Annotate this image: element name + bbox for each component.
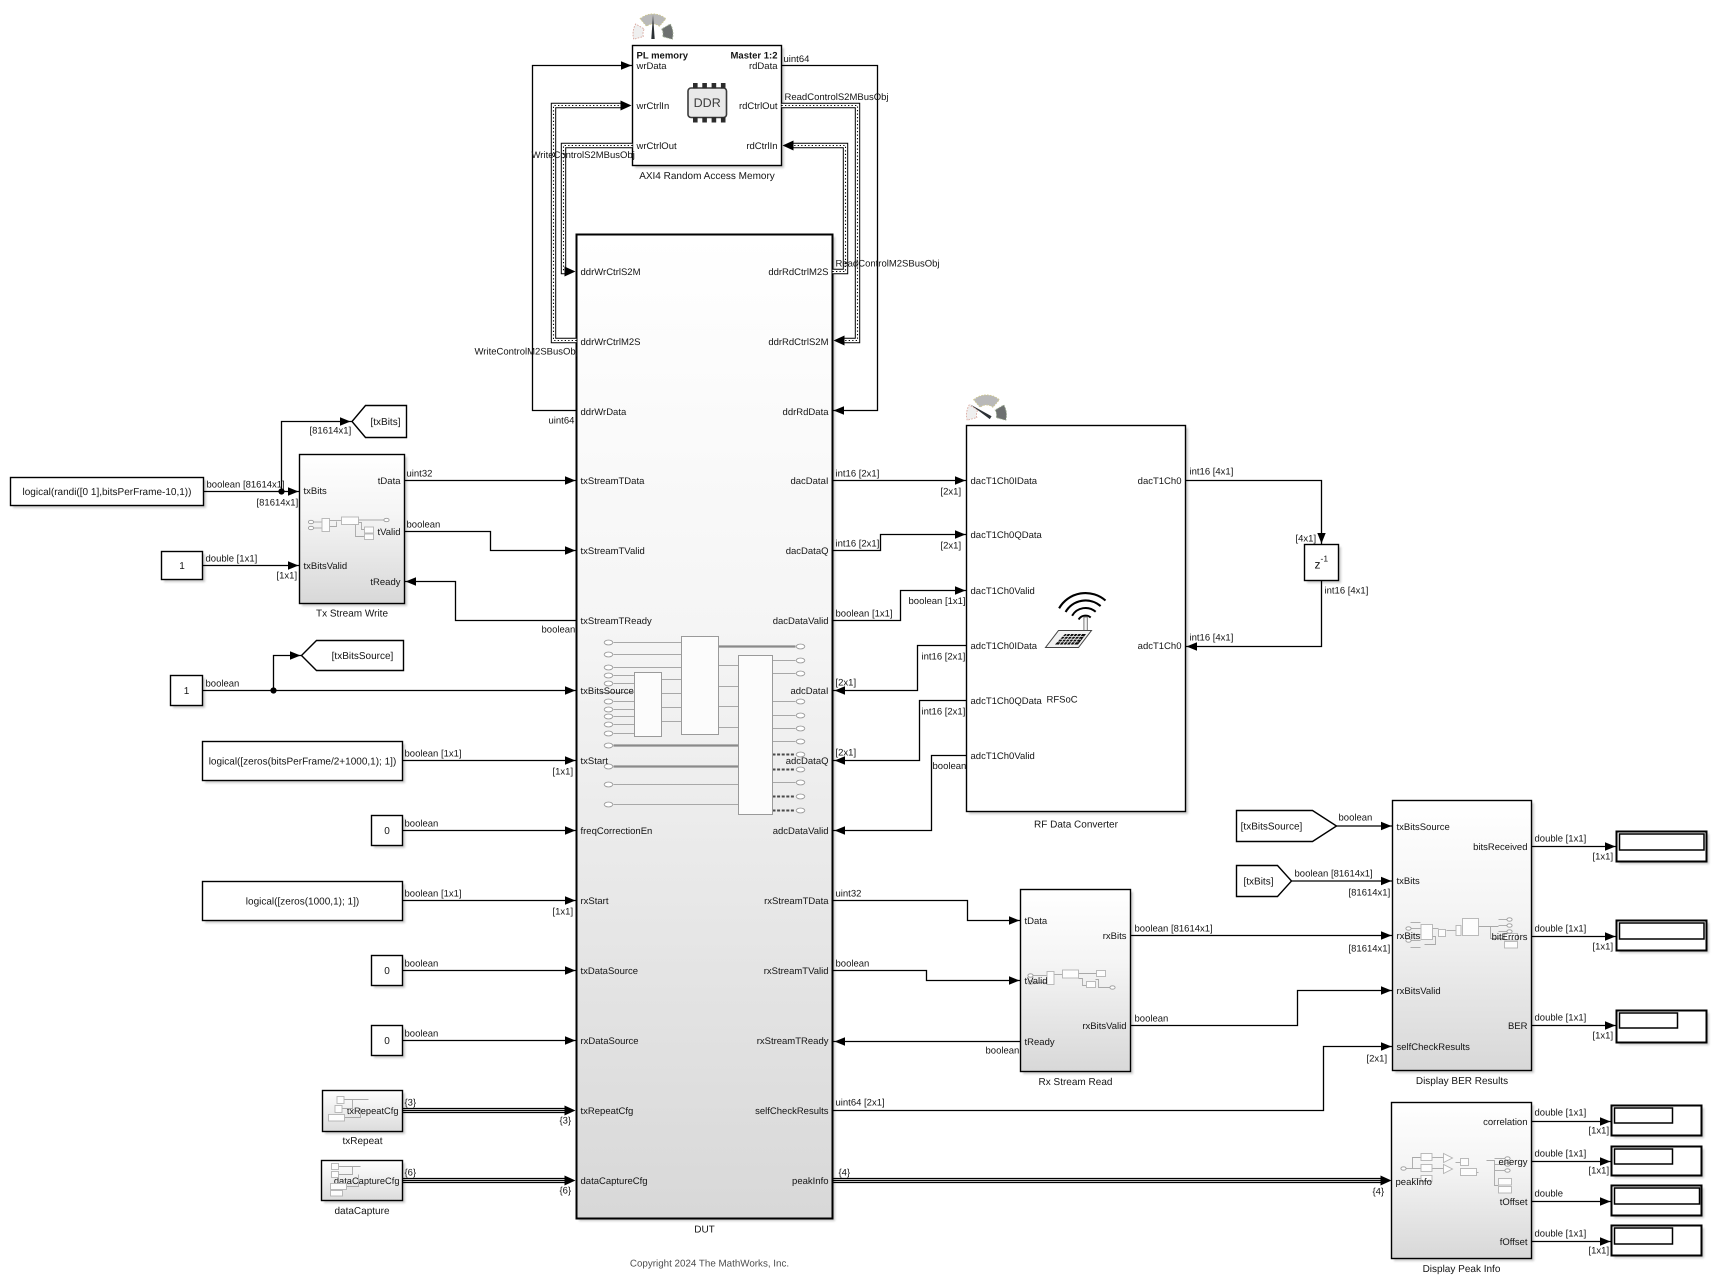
svg-text:txRepeatCfg: txRepeatCfg — [347, 1106, 399, 1116]
wire const0 -> freqCorrectionEn — [403, 830, 577, 832]
svg-text:dacT1Ch0Valid: dacT1Ch0Valid — [971, 586, 1035, 597]
svg-text:correlation: correlation — [1483, 1117, 1527, 1128]
svg-text:[1x1]: [1x1] — [1593, 852, 1614, 863]
svg-text:tReady: tReady — [1025, 1037, 1055, 1048]
Display Peak preview sketch — [1401, 1154, 1512, 1194]
wire tValid -> txStreamTValid — [405, 532, 577, 551]
svg-text:0: 0 — [384, 966, 390, 977]
block dataCapture — [322, 1161, 406, 1204]
wire peakInfo -> Display Peak Info (bus {4}) — [833, 1178, 1383, 1180]
svg-text:int16 [4x1]: int16 [4x1] — [1190, 633, 1234, 644]
svg-text:uint64 [2x1]: uint64 [2x1] — [836, 1098, 885, 1109]
svg-text:rxStreamTValid: rxStreamTValid — [764, 966, 829, 977]
svg-text:ddrWrCtrlM2S: ddrWrCtrlM2S — [581, 337, 641, 348]
svg-text:energy: energy — [1498, 1157, 1527, 1168]
svg-text:1: 1 — [184, 686, 190, 697]
wire rdData -> ddrRdData — [782, 66, 878, 411]
svg-text:txBitsValid: txBitsValid — [304, 561, 348, 572]
svg-text:BER: BER — [1508, 1021, 1528, 1032]
svg-text:rxStart: rxStart — [581, 896, 609, 907]
svg-text:boolean: boolean — [405, 959, 439, 970]
wire from [txBits] -> Display BER — [1292, 880, 1393, 882]
wire fOffset -> display — [1532, 1241, 1612, 1243]
gauge icon above AXI4 RAM — [633, 14, 673, 39]
svg-text:WriteControlS2MBusObj: WriteControlS2MBusObj — [532, 150, 635, 161]
wire const1 -> txBitsValid — [203, 565, 300, 567]
svg-text:boolean: boolean — [1339, 813, 1373, 824]
wire dacDataI -> dacT1Ch0IData — [833, 480, 967, 482]
wire adcT1Ch0Valid -> adcDataValid — [834, 756, 967, 831]
svg-text:[txBitsSource]: [txBitsSource] — [332, 651, 394, 662]
svg-text:dacT1Ch0QData: dacT1Ch0QData — [971, 530, 1043, 541]
svg-text:tData: tData — [378, 476, 401, 487]
svg-text:[1x1]: [1x1] — [553, 767, 574, 778]
wire dataCapture -> dataCaptureCfg (bus {6}) — [403, 1178, 567, 1180]
svg-text:boolean [81614x1]: boolean [81614x1] — [207, 480, 285, 491]
svg-text:boolean: boolean — [405, 1029, 439, 1040]
svg-text:double [1x1]: double [1x1] — [1535, 1013, 1587, 1024]
svg-text:double [1x1]: double [1x1] — [1535, 924, 1587, 935]
svg-text:boolean: boolean — [836, 959, 870, 970]
svg-text:{4}: {4} — [1373, 1187, 1385, 1198]
wire ddrWrData -> wrData — [533, 66, 633, 411]
goto tag [txBits] — [352, 406, 407, 438]
svg-text:[1x1]: [1x1] — [553, 907, 574, 918]
svg-text:rxBits: rxBits — [1103, 931, 1127, 942]
svg-text:adcDataI: adcDataI — [790, 686, 828, 697]
svg-text:[81614x1]: [81614x1] — [1349, 888, 1391, 899]
block txRepeat — [323, 1091, 406, 1135]
svg-text:RF Data Converter: RF Data Converter — [1034, 820, 1119, 831]
svg-text:int16 [2x1]: int16 [2x1] — [836, 539, 880, 550]
wire const0 -> rxDataSource — [403, 1040, 577, 1042]
svg-text:rxBits: rxBits — [1397, 931, 1421, 942]
svg-text:int16 [4x1]: int16 [4x1] — [1190, 467, 1234, 478]
svg-text:0: 0 — [384, 1036, 390, 1047]
junction txBitsSource branch — [270, 687, 276, 693]
svg-text:[1x1]: [1x1] — [1589, 1166, 1610, 1177]
wire dacT1Ch0 -> delay — [1186, 481, 1322, 545]
wire selfCheckResults -> Display BER — [833, 1047, 1393, 1111]
svg-text:int16 [2x1]: int16 [2x1] — [922, 707, 966, 718]
svg-text:rdData: rdData — [749, 61, 778, 72]
svg-text:DDR: DDR — [694, 96, 721, 110]
Tx Stream Write preview sketch — [308, 517, 389, 540]
svg-text:selfCheckResults: selfCheckResults — [1397, 1042, 1471, 1053]
svg-text:adcT1Ch0Valid: adcT1Ch0Valid — [971, 751, 1035, 762]
svg-text:0: 0 — [384, 826, 390, 837]
block Rx Stream Read — [1021, 890, 1134, 1075]
svg-text:{4}: {4} — [839, 1168, 851, 1179]
svg-text:Rx Stream Read: Rx Stream Read — [1039, 1077, 1113, 1088]
svg-text:rxStreamTData: rxStreamTData — [764, 896, 829, 907]
wire tData -> txStreamTData — [405, 480, 577, 482]
svg-text:selfCheckResults: selfCheckResults — [755, 1106, 829, 1117]
svg-text:freqCorrectionEn: freqCorrectionEn — [581, 826, 653, 837]
svg-text:adcT1Ch0QData: adcT1Ch0QData — [971, 696, 1043, 707]
svg-text:ddrRdCtrlM2S: ddrRdCtrlM2S — [768, 267, 828, 278]
wire BER -> display — [1532, 1025, 1617, 1027]
svg-text:PL memory: PL memory — [637, 51, 689, 62]
svg-text:ddrRdCtrlS2M: ddrRdCtrlS2M — [768, 337, 828, 348]
svg-text:rxDataSource: rxDataSource — [581, 1036, 639, 1047]
svg-text:ddrWrData: ddrWrData — [581, 407, 627, 418]
RFSoC antenna icon — [1046, 593, 1106, 647]
block Display BER Results — [1393, 801, 1535, 1074]
svg-text:boolean: boolean — [933, 761, 967, 772]
svg-text:AXI4 Random Access Memory: AXI4 Random Access Memory — [639, 171, 775, 182]
display bitErrors — [1617, 921, 1710, 954]
svg-text:Display Peak Info: Display Peak Info — [1423, 1264, 1501, 1275]
svg-text:double [1x1]: double [1x1] — [1535, 834, 1587, 845]
svg-text:[2x1]: [2x1] — [941, 541, 962, 552]
wire rxBits -> Display BER rxBits — [1131, 935, 1393, 937]
svg-text:int16 [4x1]: int16 [4x1] — [1325, 586, 1369, 597]
svg-text:ddrRdData: ddrRdData — [783, 407, 830, 418]
svg-text:DUT: DUT — [694, 1225, 715, 1236]
wire dacDataValid -> dacT1Ch0Valid — [833, 591, 967, 621]
goto tag [txBitsSource] — [302, 641, 404, 671]
wire adcT1Ch0QData -> adcDataQ — [834, 701, 967, 761]
svg-text:[2x1]: [2x1] — [836, 678, 857, 689]
svg-text:boolean [1x1]: boolean [1x1] — [909, 596, 966, 607]
wire ddrRdCtrlM2S -> rdCtrlIn (control bus) — [792, 146, 846, 272]
svg-text:Display BER Results: Display BER Results — [1416, 1076, 1508, 1087]
wire correlation -> display — [1532, 1121, 1612, 1123]
svg-text:RFSoC: RFSoC — [1047, 695, 1078, 706]
block expression logical([zeros(bitsPerFrame/2+1000,1); 1]) — [203, 742, 406, 784]
Display BER preview sketch — [1406, 918, 1518, 948]
svg-text:boolean: boolean — [407, 520, 441, 531]
wire tReady -> rxStreamTReady — [834, 1041, 1021, 1043]
svg-text:int16 [2x1]: int16 [2x1] — [836, 469, 880, 480]
svg-text:double [1x1]: double [1x1] — [1535, 1149, 1587, 1160]
wire rdCtrlOut -> ddrRdCtrlS2M (control bus) — [782, 106, 858, 341]
svg-text:adcDataQ: adcDataQ — [786, 756, 829, 767]
svg-text:tReady: tReady — [370, 577, 400, 588]
svg-text:tOffset: tOffset — [1500, 1197, 1528, 1208]
wire tOffset -> display — [1532, 1201, 1612, 1203]
wire txStreamTReady -> tReady — [405, 582, 577, 621]
svg-text:Copyright 2024 The MathWorks,: Copyright 2024 The MathWorks, Inc. — [630, 1259, 789, 1270]
svg-text:[txBits]: [txBits] — [1243, 877, 1273, 888]
DUT subsystem preview sketch — [601, 637, 805, 815]
svg-text:rxBitsValid: rxBitsValid — [1397, 986, 1441, 997]
svg-text:boolean: boolean — [542, 625, 576, 636]
svg-text:tValid: tValid — [1025, 976, 1048, 987]
svg-text:dacDataI: dacDataI — [790, 476, 828, 487]
svg-text:txRepeat: txRepeat — [342, 1136, 382, 1147]
svg-text:{6}: {6} — [560, 1186, 572, 1197]
svg-text:uint64: uint64 — [549, 416, 575, 427]
wire adcT1Ch0IData -> adcDataI — [834, 646, 967, 691]
svg-text:rxStreamTReady: rxStreamTReady — [757, 1036, 829, 1047]
svg-text:double: double — [1535, 1189, 1564, 1200]
svg-text:dacT1Ch0: dacT1Ch0 — [1138, 476, 1182, 487]
block AXI4 Random Access Memory — [633, 46, 785, 169]
block Delay z^-1 — [1305, 545, 1342, 584]
wire zeros1 -> txStart — [403, 760, 577, 762]
svg-text:bitsReceived: bitsReceived — [1473, 842, 1527, 853]
Rx Stream Read port labels — [1025, 916, 1127, 1048]
svg-text:[81614x1]: [81614x1] — [310, 426, 352, 437]
svg-text:logical([zeros(1000,1); 1]): logical([zeros(1000,1); 1]) — [246, 897, 359, 908]
svg-text:bitErrors: bitErrors — [1492, 932, 1528, 943]
svg-text:wrCtrlIn: wrCtrlIn — [636, 101, 670, 112]
svg-text:txRepeatCfg: txRepeatCfg — [581, 1106, 634, 1117]
svg-text:{3}: {3} — [405, 1098, 417, 1109]
svg-text:double [1x1]: double [1x1] — [206, 554, 258, 565]
svg-text:uint64: uint64 — [784, 54, 810, 65]
block DUT — [577, 235, 836, 1222]
svg-text:adcT1Ch0IData: adcT1Ch0IData — [971, 641, 1038, 652]
from tag [txBitsSource] — [1237, 811, 1337, 842]
svg-text:double [1x1]: double [1x1] — [1535, 1108, 1587, 1119]
svg-text:dataCapture: dataCapture — [334, 1206, 389, 1217]
svg-text:boolean: boolean — [986, 1046, 1020, 1057]
svg-text:rdCtrlIn: rdCtrlIn — [746, 141, 777, 152]
svg-text:txStreamTData: txStreamTData — [581, 476, 646, 487]
svg-text:boolean: boolean — [405, 819, 439, 830]
svg-text:[1x1]: [1x1] — [1593, 1031, 1614, 1042]
svg-text:rdCtrlOut: rdCtrlOut — [739, 101, 778, 112]
wire rxBitsValid -> Display BER rxBitsValid — [1131, 991, 1393, 1026]
svg-text:peakInfo: peakInfo — [1396, 1177, 1432, 1188]
block Display Peak Info — [1392, 1103, 1535, 1262]
svg-text:dataCaptureCfg: dataCaptureCfg — [581, 1176, 648, 1187]
svg-text:dacDataQ: dacDataQ — [786, 546, 829, 557]
svg-text:txStart: txStart — [581, 756, 609, 767]
svg-text:adcDataValid: adcDataValid — [773, 826, 829, 837]
block Tx Stream Write — [300, 455, 408, 607]
svg-text:[1x1]: [1x1] — [1589, 1246, 1610, 1257]
block constant 1 (txBitsSource) — [171, 676, 206, 709]
Rx Stream Read preview sketch — [1028, 970, 1115, 989]
svg-text:[81614x1]: [81614x1] — [257, 498, 299, 509]
wire txRepeat -> txRepeatCfg (bus {3}) — [403, 1108, 567, 1110]
Display Peak Info port labels — [1396, 1117, 1528, 1248]
from tag [txBits] — [1237, 866, 1292, 897]
wire energy -> display — [1532, 1161, 1612, 1163]
svg-text:boolean: boolean — [1135, 1014, 1169, 1025]
svg-text:ReadControlS2MBusObj: ReadControlS2MBusObj — [785, 92, 889, 103]
wire zeros2 -> rxStart — [403, 900, 577, 902]
display fOffset — [1612, 1226, 1705, 1259]
svg-text:wrCtrlOut: wrCtrlOut — [636, 141, 677, 152]
svg-text:tData: tData — [1025, 916, 1048, 927]
block constant 0 (rxDataSource) — [372, 1026, 406, 1059]
svg-text:dacT1Ch0IData: dacT1Ch0IData — [971, 476, 1038, 487]
svg-text:int16 [2x1]: int16 [2x1] — [922, 652, 966, 663]
svg-text:1: 1 — [179, 561, 185, 572]
block constant 0 (txDataSource) — [372, 956, 406, 989]
svg-text:txStreamTValid: txStreamTValid — [581, 546, 645, 557]
wire dacDataQ -> dacT1Ch0QData — [833, 535, 967, 551]
display energy — [1612, 1147, 1705, 1179]
svg-text:[1x1]: [1x1] — [1593, 942, 1614, 953]
wire wrCtrlOut -> ddrWrCtrlS2M (control bus) — [564, 146, 633, 272]
svg-text:dacDataValid: dacDataValid — [773, 616, 829, 627]
wire ddrWrCtrlM2S -> wrCtrlIn (control bus) — [554, 106, 623, 341]
gauge icon above RF Data Converter — [967, 395, 1007, 420]
svg-text:[2x1]: [2x1] — [941, 487, 962, 498]
svg-text:[2x1]: [2x1] — [1367, 1054, 1388, 1065]
svg-text:boolean [1x1]: boolean [1x1] — [836, 609, 893, 620]
svg-text:[81614x1]: [81614x1] — [1349, 944, 1391, 955]
wire rxStreamTValid -> tValid — [833, 971, 1021, 981]
display bitsReceived — [1617, 832, 1710, 865]
svg-text:-1: -1 — [1321, 554, 1329, 564]
svg-text:{6}: {6} — [405, 1168, 417, 1179]
svg-text:boolean [1x1]: boolean [1x1] — [405, 749, 462, 760]
wire bitErrors -> display — [1532, 936, 1617, 938]
svg-text:txBits: txBits — [1397, 876, 1420, 887]
svg-text:[txBits]: [txBits] — [370, 417, 400, 428]
wire bitsReceived -> display — [1532, 846, 1617, 848]
wire delay -> adcT1Ch0 — [1186, 581, 1322, 647]
svg-text:txBitsSource: txBitsSource — [581, 686, 634, 697]
wire const0 -> txDataSource — [403, 970, 577, 972]
svg-text:Tx Stream Write: Tx Stream Write — [316, 609, 388, 620]
svg-text:txBits: txBits — [304, 486, 327, 497]
junction randi branch — [278, 488, 284, 494]
wire from [txBitsSource] -> Display BER — [1337, 825, 1393, 827]
svg-text:boolean [81614x1]: boolean [81614x1] — [1295, 869, 1373, 880]
svg-text:[1x1]: [1x1] — [1589, 1126, 1610, 1137]
svg-text:peakInfo: peakInfo — [792, 1176, 828, 1187]
DUT port labels — [581, 267, 830, 1187]
svg-text:boolean [81614x1]: boolean [81614x1] — [1135, 924, 1213, 935]
block constant 1 (txBitsValid) — [162, 552, 206, 583]
Display BER Results port labels — [1397, 822, 1528, 1053]
svg-text:Master 1:2: Master 1:2 — [731, 51, 778, 62]
svg-text:boolean [1x1]: boolean [1x1] — [405, 889, 462, 900]
wire const1 -> txBitsSource with branch to goto [txBitsSource] — [203, 690, 577, 692]
display BER — [1617, 1011, 1710, 1046]
svg-text:wrData: wrData — [636, 61, 668, 72]
svg-text:[2x1]: [2x1] — [836, 748, 857, 759]
svg-text:tValid: tValid — [377, 527, 400, 538]
svg-text:ReadControlM2SBusObj: ReadControlM2SBusObj — [836, 259, 940, 270]
svg-text:WriteControlM2SBusObj: WriteControlM2SBusObj — [475, 347, 578, 358]
svg-text:boolean: boolean — [206, 679, 240, 690]
display correlation — [1612, 1106, 1705, 1139]
svg-text:txStreamTReady: txStreamTReady — [581, 616, 653, 627]
svg-text:rxBitsValid: rxBitsValid — [1082, 1021, 1126, 1032]
svg-text:{3}: {3} — [560, 1116, 572, 1127]
svg-text:logical(randi([0 1],bitsPerFra: logical(randi([0 1],bitsPerFrame-10,1)) — [23, 487, 192, 498]
wire randi -> txBits with branch to goto [txBits] — [204, 491, 300, 493]
svg-text:uint32: uint32 — [836, 889, 862, 900]
svg-text:uint32: uint32 — [407, 469, 433, 480]
block RF Data Converter — [967, 426, 1189, 815]
svg-text:txBitsSource: txBitsSource — [1397, 822, 1450, 833]
svg-text:double [1x1]: double [1x1] — [1535, 1229, 1587, 1240]
svg-text:ddrWrCtrlS2M: ddrWrCtrlS2M — [581, 267, 641, 278]
svg-text:[txBitsSource]: [txBitsSource] — [1241, 822, 1303, 833]
block constant 0 (freqCorrectionEn) — [372, 816, 406, 849]
display tOffset — [1612, 1186, 1705, 1219]
svg-text:[4x1]: [4x1] — [1296, 534, 1317, 545]
svg-text:adcT1Ch0: adcT1Ch0 — [1138, 641, 1182, 652]
svg-text:fOffset: fOffset — [1500, 1237, 1528, 1248]
block expression logical([zeros(1000,1); 1]) — [203, 882, 406, 924]
block expression logical(randi(...)) — [11, 478, 207, 509]
svg-text:logical([zeros(bitsPerFrame/2+: logical([zeros(bitsPerFrame/2+1000,1); 1… — [209, 757, 397, 768]
svg-text:[1x1]: [1x1] — [277, 571, 298, 582]
wire rxStreamTData -> tData — [833, 901, 1021, 921]
svg-text:txDataSource: txDataSource — [581, 966, 639, 977]
